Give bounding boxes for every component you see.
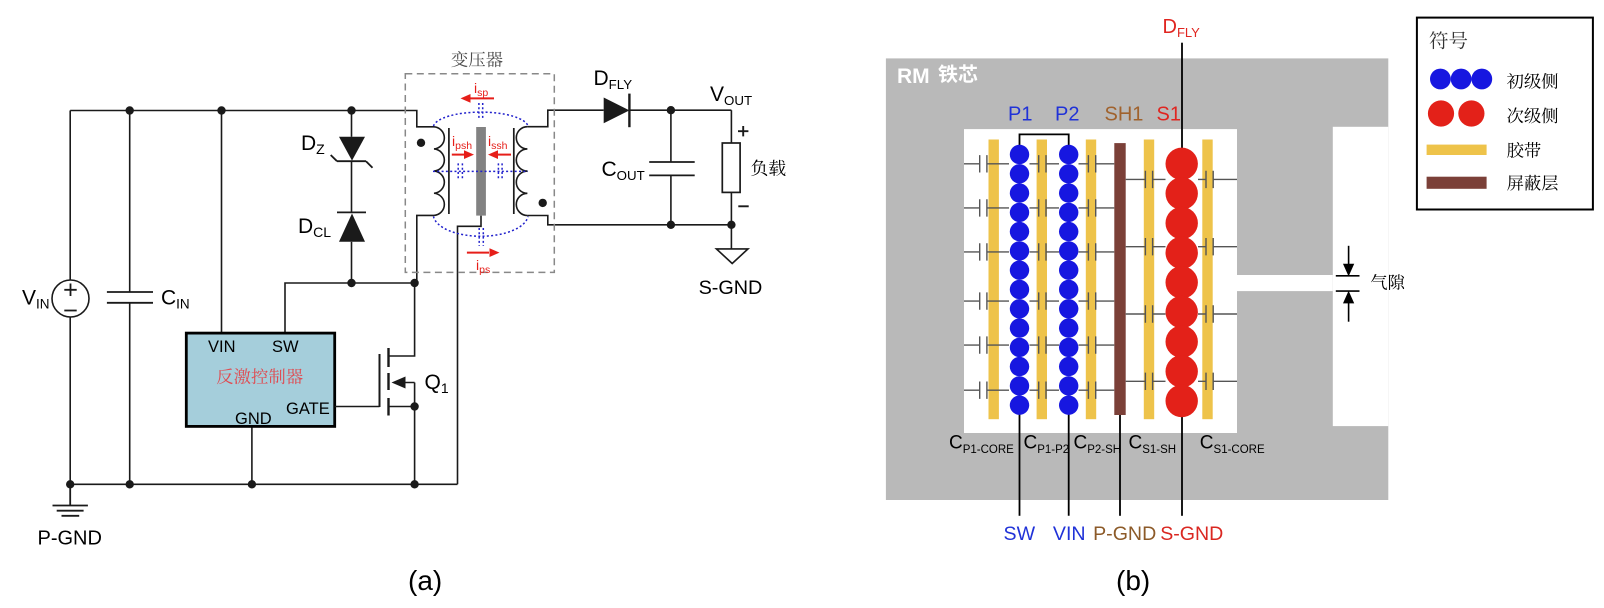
transistor Q1 MOSFET xyxy=(335,283,415,484)
capacitor parasitic S1-core xyxy=(1198,305,1237,322)
wire top rail from VIN+ to transformer primary top xyxy=(70,111,434,127)
parasitic path bottom dotted ellipse xyxy=(434,217,529,237)
junction node dot 10 xyxy=(410,480,418,488)
wire VIN source bottom lead to ground rail xyxy=(69,318,71,485)
wire P1 to P2 top link xyxy=(1020,134,1069,146)
junction node dot 1 xyxy=(126,106,134,114)
capacitor parasitic P1-core xyxy=(964,336,1009,353)
wire controller GND pin xyxy=(251,426,253,484)
capacitor parasitic P2-shield xyxy=(1079,243,1115,260)
junction node dot 9 xyxy=(248,480,256,488)
svg-text:ipsh: ipsh xyxy=(452,133,472,152)
label plus xyxy=(738,126,748,136)
diode DCL xyxy=(337,212,366,241)
wire COUT top lead xyxy=(670,110,672,162)
wire SW lead from P1 xyxy=(1019,405,1021,516)
capacitor parasitic P1-P2 xyxy=(1030,382,1060,399)
wire P-GND lead from SH1 xyxy=(1119,415,1121,516)
junction node dot 6 xyxy=(410,402,418,410)
wire controller VIN pin riser xyxy=(221,111,223,334)
capacitor parasitic S1-core xyxy=(1198,238,1237,255)
RM core body xyxy=(886,58,1388,500)
inductor primary winding xyxy=(434,127,444,216)
wire secondary top lead to DFLY anode xyxy=(527,110,603,127)
legend primary side circles xyxy=(1430,69,1492,90)
wire VIN lead from P2 xyxy=(1068,405,1070,516)
shield bar inside transformer xyxy=(476,127,486,216)
capacitor parasitic P1-core xyxy=(964,292,1009,309)
label RM core (Chinese iron core) xyxy=(938,64,977,83)
legend tape swatch xyxy=(1427,145,1487,155)
capacitor parasitic P1-P2 xyxy=(1030,243,1060,260)
legend shield swatch xyxy=(1427,177,1487,189)
capacitor parasitic shield-S1 xyxy=(1126,238,1166,255)
svg-text:RM: RM xyxy=(897,65,930,88)
svg-text:SW: SW xyxy=(272,338,299,356)
diode DFLY xyxy=(604,94,630,128)
svg-text:S-GND: S-GND xyxy=(1160,523,1223,545)
svg-text:P2: P2 xyxy=(1055,104,1079,126)
label primary side (Chinese) xyxy=(1507,73,1558,89)
wire DZ branch top xyxy=(351,111,353,137)
label air gap (Chinese) xyxy=(1371,274,1404,290)
capacitor parasitic shield-S1 xyxy=(1126,171,1166,188)
capacitor parasitic P1-P2 xyxy=(1030,336,1060,353)
svg-text:isp: isp xyxy=(474,80,488,99)
junction node dot 4 xyxy=(347,279,355,287)
svg-text:VOUT: VOUT xyxy=(710,83,752,108)
capacitor CIN xyxy=(107,292,153,303)
junction node dot 3 xyxy=(347,106,355,114)
parasitic path middle dotted line xyxy=(433,170,528,172)
winding P1 turns (blue) xyxy=(1010,145,1029,415)
shield layer SH1 xyxy=(1114,143,1125,415)
capacitor parasitic P1-core xyxy=(964,199,1009,216)
capacitor parasitic P1-P2 xyxy=(1030,155,1060,172)
wire VIN source top lead xyxy=(69,111,71,280)
capacitor parasitic P2-shield xyxy=(1079,336,1115,353)
capacitor parasitic top xyxy=(479,103,483,119)
wire load bottom lead to S-GND xyxy=(730,192,732,249)
svg-text:P-GND: P-GND xyxy=(38,528,102,550)
legend box xyxy=(1417,18,1593,210)
svg-text:SH1: SH1 xyxy=(1105,104,1144,126)
svg-text:VIN: VIN xyxy=(1053,523,1086,545)
junction node dot 7 xyxy=(66,480,74,488)
svg-text:Q1: Q1 xyxy=(425,371,449,396)
svg-text:CIN: CIN xyxy=(161,287,190,312)
svg-text:DFLY: DFLY xyxy=(1163,16,1201,40)
svg-text:P-GND: P-GND xyxy=(1093,523,1156,545)
wire DCL anode to SW node xyxy=(351,242,353,283)
capacitor parasitic P2-shield xyxy=(1079,292,1115,309)
label minus xyxy=(738,205,748,207)
wire DFLY cathode to VOUT node xyxy=(629,109,731,111)
core line left xyxy=(448,128,450,214)
inductor secondary winding xyxy=(516,127,527,216)
junction node dot 12 xyxy=(667,221,675,229)
capacitor parasitic P1-core xyxy=(964,155,1009,172)
svg-text:VIN: VIN xyxy=(208,338,236,356)
capacitor parasitic shield-S1 xyxy=(1126,373,1166,390)
svg-text:VIN: VIN xyxy=(22,287,50,312)
wire between DZ and DCL xyxy=(351,161,353,212)
wire S-GND lead from S1 xyxy=(1181,401,1183,516)
tape strip 3 xyxy=(1086,140,1096,420)
tape strip 2 xyxy=(1037,140,1047,420)
voltage source VIN xyxy=(52,280,89,317)
label load (Chinese) xyxy=(751,160,785,177)
current arrow ips xyxy=(467,248,500,257)
capacitor parasitic mid-left xyxy=(458,163,462,179)
winding S1 turns (red) xyxy=(1166,148,1198,418)
tape strip 4 xyxy=(1144,140,1154,420)
wire CIN bottom lead xyxy=(129,303,131,485)
current arrow isp xyxy=(461,94,495,103)
svg-text:COUT: COUT xyxy=(602,158,645,183)
svg-text:GATE: GATE xyxy=(286,400,330,418)
label tape (Chinese) xyxy=(1507,142,1540,158)
resistor load xyxy=(722,143,740,192)
current arrow issh xyxy=(488,150,511,159)
label secondary side (Chinese) xyxy=(1507,107,1557,123)
junction node dot 13 xyxy=(727,221,735,229)
capacitor parasitic S1-core xyxy=(1198,171,1237,188)
node primary phase dot xyxy=(417,139,425,147)
capacitor parasitic P1-core xyxy=(964,382,1009,399)
parasitic path top dotted ellipse xyxy=(434,112,529,126)
capacitor parasitic P1-P2 xyxy=(1030,292,1060,309)
svg-text:issh: issh xyxy=(488,133,508,152)
wire primary winding bottom lead xyxy=(417,215,434,283)
ground S-GND symbol xyxy=(716,249,748,264)
capacitor parasitic P1-core xyxy=(964,243,1009,260)
wire CIN top lead xyxy=(129,111,131,293)
zener diode DZ xyxy=(331,137,373,168)
op-amp U1 flyback controller box xyxy=(186,333,334,426)
tape strip 5 xyxy=(1202,140,1212,420)
svg-text:SW: SW xyxy=(1004,523,1036,545)
wire COUT bottom lead xyxy=(670,175,672,224)
junction node dot 11 xyxy=(667,106,675,114)
capacitor parasitic P1-P2 xyxy=(1030,199,1060,216)
junction node dot 8 xyxy=(126,480,134,488)
svg-text:DFLY: DFLY xyxy=(594,67,633,92)
svg-text:(b): (b) xyxy=(1116,565,1150,596)
wire ground rail P-GND xyxy=(70,483,457,485)
wire secondary bottom lead to S-GND rail xyxy=(527,216,731,225)
capacitor parasitic P2-shield xyxy=(1079,382,1115,399)
label transformer (Chinese) xyxy=(451,51,502,67)
capacitor parasitic bottom xyxy=(479,228,483,246)
current arrow ipsh xyxy=(452,150,474,159)
svg-text:DCL: DCL xyxy=(298,215,331,240)
core line right xyxy=(513,128,515,214)
wire shield stem to ground rail xyxy=(458,216,482,485)
ground P-GND symbol xyxy=(53,484,88,516)
svg-text:S1: S1 xyxy=(1157,104,1181,126)
svg-text:S-GND: S-GND xyxy=(699,277,763,299)
wire load top lead xyxy=(730,110,732,143)
label shield layer (Chinese) xyxy=(1507,175,1558,191)
legend secondary side circles xyxy=(1428,100,1485,126)
capacitor parasitic shield-S1 xyxy=(1126,305,1166,322)
winding P2 turns (blue) xyxy=(1059,145,1078,415)
svg-text:P1: P1 xyxy=(1008,104,1032,126)
svg-text:(a): (a) xyxy=(408,565,442,596)
wire DFLY lead from S1 top xyxy=(1181,43,1183,164)
tape strip 1 xyxy=(989,140,999,420)
capacitor COUT xyxy=(649,162,695,175)
label flyback controller (Chinese) xyxy=(217,368,303,384)
svg-text:ips: ips xyxy=(476,257,490,276)
capacitor parasitic P2-shield xyxy=(1079,199,1115,216)
wire SW rail to Q1 drain and primary bottom xyxy=(285,283,415,333)
junction node dot 5 xyxy=(410,279,418,287)
svg-text:GND: GND xyxy=(235,410,272,428)
air gap dimension arrows xyxy=(1336,246,1360,322)
junction node dot 2 xyxy=(217,106,225,114)
node secondary phase dot xyxy=(539,199,547,207)
capacitor parasitic mid-right xyxy=(498,163,502,179)
svg-text:DZ: DZ xyxy=(301,132,325,157)
transformer dashed boundary box xyxy=(405,74,554,273)
capacitor parasitic P2-shield xyxy=(1079,155,1115,172)
label legend title (Chinese symbol) xyxy=(1430,31,1468,49)
capacitor parasitic S1-core xyxy=(1198,373,1237,390)
